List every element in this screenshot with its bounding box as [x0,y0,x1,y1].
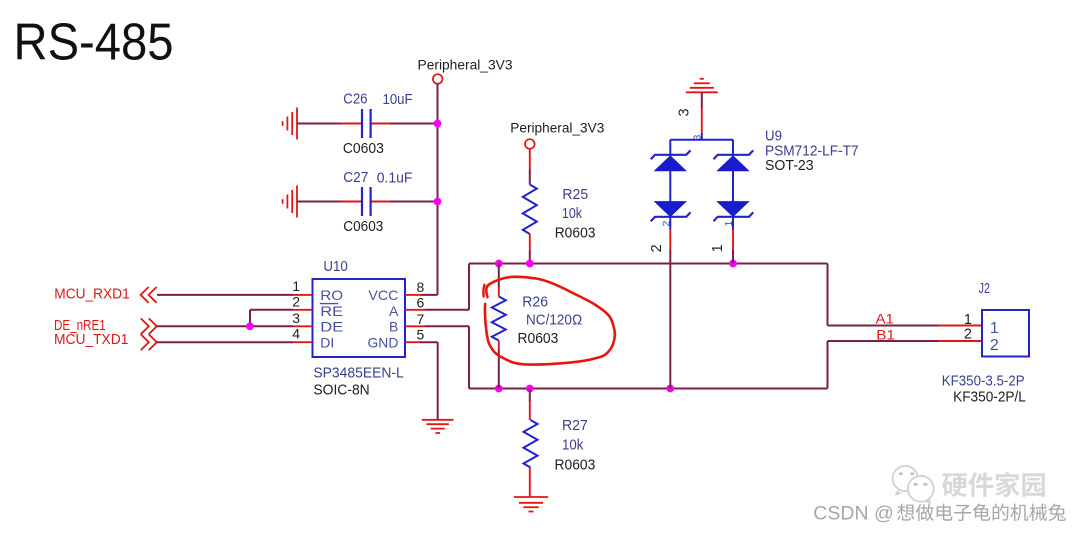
wire C26 row [297,123,341,125]
svg-text:R0603: R0603 [555,458,596,474]
wire C27 row [297,201,341,203]
ground (U9 top, inverted) [686,91,718,93]
svg-text:DE: DE [320,319,343,335]
svg-text:DI: DI [320,335,334,351]
svg-text:GND: GND [368,335,399,351]
svg-text:2: 2 [990,337,999,354]
svg-text:10k: 10k [562,438,584,454]
power port Peripheral_3V3 (left) [433,74,443,84]
wire DE_nRE1 to pin3 [157,325,293,327]
ground (C27 left) [296,186,298,218]
svg-text:R26: R26 [522,294,548,310]
svg-text:1: 1 [964,312,972,328]
wire top bus A-net [469,263,828,265]
wire U9 pin3 to ground [701,92,703,108]
resistor R25 [529,149,531,170]
svg-text:SOIC-8N: SOIC-8N [313,382,369,398]
wire B elbow to B1 [827,341,829,389]
svg-text:B1: B1 [876,327,895,343]
svg-text:C0603: C0603 [343,219,383,235]
svg-text:6: 6 [417,295,425,311]
svg-text:1: 1 [990,320,999,337]
pin stub VCC pin8 [405,294,421,296]
resistor R27 [529,389,531,402]
svg-text:SOT-23: SOT-23 [765,158,814,174]
capacitor C26 [361,109,363,138]
junction diode pin1 [729,260,737,268]
wire MCU_TXD1 to pin4 [157,341,293,343]
wire MCU_RXD1 to pin1 [157,294,293,296]
svg-text:10k: 10k [562,206,583,222]
svg-text:Peripheral_3V3: Peripheral_3V3 [510,121,604,137]
svg-text:2: 2 [649,244,665,252]
svg-text:SP3485EEN-L: SP3485EEN-L [313,365,403,381]
junction diode pin2 [666,385,674,393]
svg-text:MCU_RXD1: MCU_RXD1 [54,287,129,303]
svg-text:2: 2 [661,221,673,227]
svg-text:VCC: VCC [368,287,398,303]
wire [732,140,734,157]
watermark brand text [942,472,1045,497]
svg-text:B: B [389,319,398,335]
svg-text:NC/120Ω: NC/120Ω [526,313,582,329]
svg-text:R27: R27 [562,418,588,434]
svg-text:U9: U9 [765,129,782,145]
wire pin6 A to loop [405,309,425,311]
resistor R26 [498,264,500,288]
watermark wechat icon [893,466,934,503]
svg-text:J2: J2 [979,281,990,297]
power port Peripheral_3V3 (R25) [525,139,535,149]
svg-text:RS-485: RS-485 [14,14,174,72]
svg-text:0.1uF: 0.1uF [377,171,413,187]
junction R25 bottom [526,260,534,268]
pin 1 stub to A bus [732,230,734,251]
svg-text:KF350-2P/L: KF350-2P/L [953,390,1026,406]
svg-text:MCU_TXD1: MCU_TXD1 [54,332,128,348]
capacitor C27 [361,187,363,216]
svg-text:R25: R25 [562,187,588,203]
svg-text:5: 5 [417,327,425,343]
svg-text:Peripheral_3V3: Peripheral_3V3 [418,58,513,74]
svg-text:7: 7 [417,311,425,327]
wire branch to pin2 RE [249,310,251,327]
svg-text:R0603: R0603 [518,331,559,347]
junction R27 top [526,385,534,393]
wire vertical 3V3 rail to VCC pin8 [437,84,439,295]
svg-text:2: 2 [964,327,972,343]
junction C26/rail [434,120,442,128]
svg-text:A1: A1 [876,311,895,327]
ground (U10 GND) [422,419,454,421]
svg-text:3: 3 [677,108,693,116]
wire A elbow to A1 [827,264,829,326]
svg-text:KF350-3.5-2P: KF350-3.5-2P [942,374,1025,390]
annotation red loop [485,277,615,365]
junction R26 top [495,260,503,268]
svg-text:1: 1 [710,244,726,252]
U9 bridge wire [670,139,733,141]
svg-text:CSDN @: CSDN @ [813,503,893,525]
junction DE_nRE1 [246,322,254,330]
pin 2 stub + wire down to B bus [669,230,671,251]
wire bottom bus B-net [469,388,828,390]
svg-text:8: 8 [417,279,425,295]
svg-text:A: A [389,303,399,319]
junction C27/rail [434,198,442,206]
wire pin7 B to loop [405,325,425,327]
wire pin5 GND down [405,341,420,343]
svg-text:C26: C26 [343,92,367,108]
ground (R27) [514,496,548,498]
junction R26 bottom [495,385,503,393]
svg-text:RO: RO [320,287,343,303]
ground (C26 left) [296,108,298,140]
wire B-net left vertical [468,326,470,388]
svg-text:3: 3 [292,310,300,326]
svg-text:C0603: C0603 [343,141,384,157]
svg-text:10uF: 10uF [383,92,413,108]
svg-text:U10: U10 [323,259,347,275]
wire A-net left vertical [468,264,470,310]
svg-text:4: 4 [292,326,300,342]
svg-text:C27: C27 [343,170,368,186]
svg-text:1: 1 [723,221,735,227]
svg-text:R0603: R0603 [555,226,596,242]
wire [669,140,671,157]
svg-text:2: 2 [292,294,300,310]
svg-text:RE: RE [320,303,343,319]
op-amp U10 body SP3485 [313,279,406,357]
svg-text:1: 1 [292,278,300,294]
connector J2 [982,310,1029,357]
